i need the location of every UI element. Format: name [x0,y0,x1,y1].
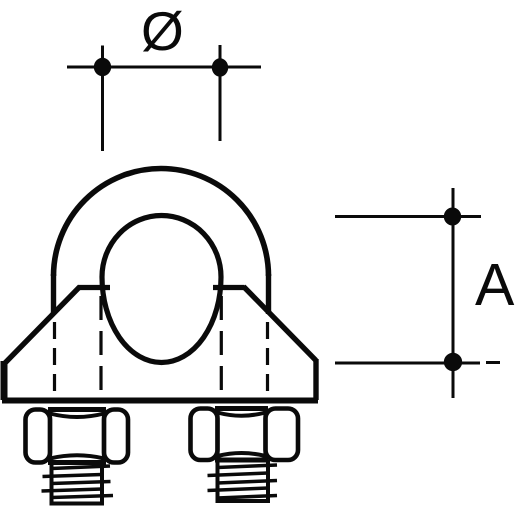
nut right facet line right [263,410,267,459]
stud right thread lines [208,465,278,498]
saddle slant left [4,287,81,365]
hidden line bolt leg inner right [220,296,223,396]
nut right bottom edge [215,458,268,463]
dimension line horizontal top [67,66,261,69]
saddle top edge right [213,285,245,290]
nut left side facet right [104,410,128,463]
nut right top edge [215,406,268,411]
nut left facet line right [102,411,106,461]
nut right chamfer arc top [218,413,266,416]
saddle slant right [244,287,317,361]
nut left bottom edge [48,460,106,465]
dimension dot left top [94,58,111,76]
stud right side edges [218,460,269,502]
saddle side edge left [1,361,8,400]
svg-text:Ø: Ø [141,0,184,62]
hidden line bolt leg inner left [99,296,102,396]
dimension line vertical right [452,188,455,398]
saddle base bottom line [2,398,318,404]
saddle top edge left [79,285,111,290]
nut right chamfer arc bottom [218,453,266,456]
stud left side edges [52,462,103,504]
nut left chamfer arc top [50,414,104,418]
extension line right vertical [219,45,222,141]
hidden line bolt leg outer right [266,322,269,398]
nut right side facet left [191,409,218,461]
nut right facet line left [215,410,219,459]
stud left thread lines [42,466,114,498]
dimension dot right bottom A [444,353,462,371]
nut left facet line left [48,411,52,461]
dimension dot right top [212,58,228,76]
extension line top right horizontal [335,215,481,218]
hidden line bolt leg outer left [53,322,56,398]
extension line left vertical [101,46,104,152]
dimension dot right top A [444,208,461,226]
svg-text:A: A [475,252,515,318]
stud right bottom edge [216,499,271,503]
nut left chamfer arc bottom [50,455,104,458]
stud left bottom edge [50,502,105,506]
u-bolt outer leg right [266,274,271,314]
saddle side edge right [313,359,318,400]
u-bolt outer leg left [51,274,56,313]
extension line bottom right horizontal [335,361,500,365]
u-bolt outer arc [54,169,269,276]
nut left side facet left [26,410,51,463]
nut right side facet right [266,409,299,461]
nut left top edge [48,407,106,412]
inner opening egg outline [102,216,221,363]
